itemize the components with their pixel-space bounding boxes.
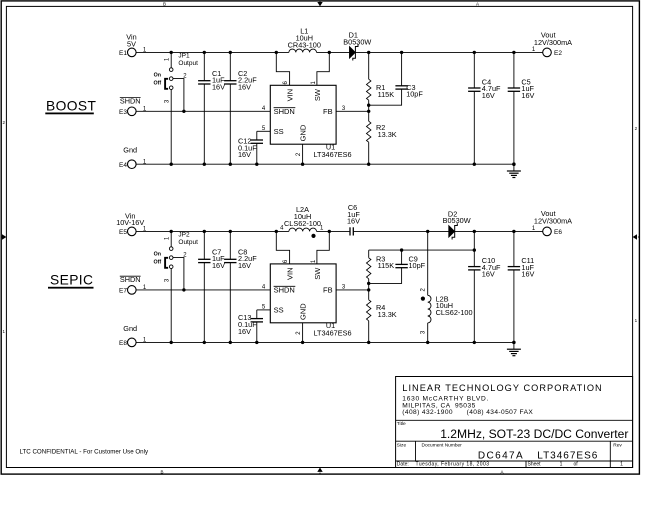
svg-text:CR43-100: CR43-100 <box>288 40 321 49</box>
svg-text:A: A <box>500 469 503 474</box>
resistor R1 <box>367 52 395 111</box>
IC U1 LT3467ES6 (sepic) <box>262 259 352 337</box>
wire SW to C6 <box>317 230 351 232</box>
svg-text:Off: Off <box>154 81 162 87</box>
diode D2 <box>443 209 471 239</box>
junction ground rail at C5 <box>512 163 515 166</box>
junction JP2 ground <box>170 341 173 344</box>
diode D1 <box>343 31 371 61</box>
wire JP1 pin 3 to ground <box>170 90 172 165</box>
junction C1 bottom <box>203 163 206 166</box>
capacitor C13 <box>238 310 263 343</box>
title block rev column divider <box>609 441 611 467</box>
junction C5 top <box>512 51 515 54</box>
junction JP1-SHDN <box>182 110 185 113</box>
wire ground rail <box>136 163 514 165</box>
svg-text:FB: FB <box>323 286 333 295</box>
svg-text:16V: 16V <box>521 91 534 100</box>
junction C5 bottom <box>512 163 515 166</box>
capacitor C8 <box>224 231 257 342</box>
terminal E5 <box>116 211 147 236</box>
capacitor C1 <box>198 52 225 164</box>
svg-text:DC647A: DC647A <box>478 451 524 462</box>
title block divider 2 <box>396 440 633 442</box>
svg-text:E5: E5 <box>119 229 127 236</box>
svg-text:1: 1 <box>620 462 623 468</box>
junction C12 ground <box>255 163 258 166</box>
junction GND pin <box>301 163 304 166</box>
svg-text:SS: SS <box>274 306 284 315</box>
svg-text:Rev: Rev <box>613 442 622 448</box>
svg-text:FB: FB <box>323 107 333 116</box>
svg-text:16V: 16V <box>482 91 495 100</box>
junction L2A left <box>275 230 278 233</box>
svg-text:Gnd: Gnd <box>123 324 137 333</box>
svg-text:16V: 16V <box>212 82 225 91</box>
svg-text:12V/300mA: 12V/300mA <box>534 216 572 225</box>
inductor L2A <box>280 205 324 238</box>
svg-text:Date:: Date: <box>397 462 409 468</box>
terminal E7 (SHDN) <box>119 275 147 295</box>
svg-text:GND: GND <box>298 124 307 141</box>
junction C2 top <box>229 51 232 54</box>
junction JP2 rail tap <box>170 230 173 233</box>
ground sepic <box>507 342 521 355</box>
junction D1 cathode node <box>367 51 370 54</box>
svg-text:SHDN: SHDN <box>274 286 295 295</box>
svg-text:VIN: VIN <box>285 267 294 280</box>
junction L2A right <box>328 230 331 233</box>
capacitor C9 <box>369 250 426 283</box>
junction GND pin sepic <box>301 341 304 344</box>
wire SS net <box>257 130 271 132</box>
resistor R4 <box>367 290 397 343</box>
junction C8 top <box>229 230 232 233</box>
junction C7 bottom <box>203 341 206 344</box>
inductor L2B <box>420 231 472 342</box>
svg-text:B0530W: B0530W <box>443 216 471 225</box>
junction JP2-SHDN <box>182 288 185 291</box>
svg-text:E7: E7 <box>119 288 127 295</box>
title block size column divider <box>415 441 417 461</box>
svg-text:Gnd: Gnd <box>123 145 137 154</box>
junction R2 ground <box>367 163 370 166</box>
zone divider top <box>317 1 322 7</box>
junction C2 bottom <box>229 163 232 166</box>
svg-text:VIN: VIN <box>285 89 294 102</box>
wire Vin rail <box>136 51 289 53</box>
wire FB <box>336 110 369 112</box>
svg-text:10pF: 10pF <box>409 261 426 270</box>
junction R3-C9 <box>367 282 370 285</box>
svg-text:16V: 16V <box>521 270 534 279</box>
svg-text:115K: 115K <box>378 90 395 99</box>
wire GND pin sepic <box>302 323 304 343</box>
capacitor C12 <box>238 131 263 164</box>
junction L1 right <box>328 51 331 54</box>
svg-text:Output: Output <box>178 239 198 246</box>
junction FB top at C9 <box>400 248 403 251</box>
wire C6 to D2 <box>353 230 448 232</box>
svg-text:E2: E2 <box>554 50 562 57</box>
svg-text:16V: 16V <box>238 327 251 336</box>
svg-text:Title: Title <box>397 421 406 427</box>
resistor R3 <box>367 250 395 290</box>
svg-text:10V-16V: 10V-16V <box>116 218 144 227</box>
svg-text:B: B <box>160 469 163 474</box>
junction JP1 rail tap <box>170 51 173 54</box>
junction FB node <box>367 110 370 113</box>
svg-text:A: A <box>476 1 479 6</box>
ground <box>507 164 521 177</box>
resistor R2 <box>367 111 397 164</box>
svg-text:of: of <box>574 462 579 468</box>
junction L1 left <box>275 51 278 54</box>
junction JP1 ground <box>170 163 173 166</box>
svg-text:SEPIC: SEPIC <box>50 273 93 288</box>
wire JP2 pin 2 to SHDN net <box>173 258 184 290</box>
title block sheet column divider <box>525 461 527 468</box>
svg-text:LT3467ES6: LT3467ES6 <box>314 150 352 159</box>
wire VIN feed <box>276 52 289 85</box>
svg-text:E4: E4 <box>119 162 127 169</box>
svg-text:Off: Off <box>154 260 162 266</box>
svg-text:E6: E6 <box>554 229 562 236</box>
svg-text:115K: 115K <box>378 261 395 270</box>
capacitor C5 <box>508 52 535 164</box>
wire JP2 pin 3 to ground <box>170 269 172 343</box>
terminal E2 <box>532 31 572 58</box>
svg-text:SHDN: SHDN <box>274 107 295 116</box>
capacitor C11 <box>508 231 535 342</box>
junction C4 bottom <box>473 163 476 166</box>
svg-text:Tuesday, February 18, 2003: Tuesday, February 18, 2003 <box>416 462 490 468</box>
junction L2B top <box>426 230 429 233</box>
svg-text:LTC CONFIDENTIAL - For Custome: LTC CONFIDENTIAL - For Customer Use Only <box>20 449 149 456</box>
svg-text:Sheet: Sheet <box>528 462 542 468</box>
svg-text:Document Number: Document Number <box>422 442 463 448</box>
svg-text:(408) 434-0507 FAX: (408) 434-0507 FAX <box>467 409 534 416</box>
svg-text:Output: Output <box>178 60 198 67</box>
svg-text:LINEAR TECHNOLOGY CORPORATION: LINEAR TECHNOLOGY CORPORATION <box>402 383 602 393</box>
section label BOOST <box>45 98 96 114</box>
svg-text:JP1: JP1 <box>178 53 190 60</box>
junction C11 top <box>512 230 515 233</box>
svg-text:13.3K: 13.3K <box>378 130 397 139</box>
svg-text:B: B <box>163 1 166 6</box>
wire SS net sepic <box>257 309 271 311</box>
junction ground rail sepic at C11 <box>512 341 515 344</box>
junction C7 top <box>203 230 206 233</box>
title block box <box>396 377 633 468</box>
svg-text:16V: 16V <box>238 150 251 159</box>
capacitor C2 <box>224 52 257 164</box>
junction C10 top <box>473 230 476 233</box>
wire Vin rail sepic <box>136 230 289 232</box>
svg-text:1.2MHz, SOT-23 DC/DC Converter: 1.2MHz, SOT-23 DC/DC Converter <box>440 427 628 441</box>
wire SW to diode <box>317 51 350 53</box>
svg-text:16V: 16V <box>238 82 251 91</box>
jumper JP2 <box>154 231 199 282</box>
inductor L1 <box>288 27 321 53</box>
svg-text:1: 1 <box>560 462 563 468</box>
svg-text:On: On <box>154 72 161 78</box>
svg-text:GND: GND <box>298 303 307 320</box>
wire JP1 pin 2 to SHDN net <box>173 79 184 112</box>
wire SHDN net sepic <box>136 289 270 291</box>
wire GND pin <box>302 144 304 164</box>
wire SW feed <box>317 52 329 85</box>
svg-text:LT3467ES6: LT3467ES6 <box>314 329 352 338</box>
wire SHDN net <box>136 110 270 112</box>
junction L2B ground <box>426 341 429 344</box>
zone divider left <box>1 234 6 239</box>
wire feedback top <box>369 249 475 251</box>
phone line <box>402 409 533 416</box>
junction R4 ground <box>367 341 370 344</box>
junction C3 top <box>400 51 403 54</box>
svg-text:CLS62-100: CLS62-100 <box>436 308 473 317</box>
svg-text:E3: E3 <box>119 109 127 116</box>
svg-text:SS: SS <box>274 127 284 136</box>
svg-text:JP2: JP2 <box>178 232 190 239</box>
svg-text:12V/300mA: 12V/300mA <box>534 38 572 47</box>
wire VIN feed sepic <box>276 231 289 264</box>
svg-text:Size: Size <box>397 442 407 448</box>
svg-text:5V: 5V <box>127 39 136 48</box>
svg-text:10pF: 10pF <box>406 90 423 99</box>
svg-text:CLS62-100: CLS62-100 <box>284 219 321 228</box>
wire SW feed sepic <box>317 231 329 264</box>
terminal E6 <box>532 209 572 236</box>
junction C1 top <box>203 51 206 54</box>
section label SEPIC <box>48 273 94 289</box>
svg-text:E8: E8 <box>119 340 127 347</box>
jumper JP1 <box>154 52 199 103</box>
junction FB node sepic <box>367 288 370 291</box>
terminal E1 <box>119 33 147 57</box>
zone divider bottom <box>317 468 322 475</box>
svg-text:BOOST: BOOST <box>46 98 96 113</box>
wire ground rail sepic <box>136 341 514 343</box>
title block divider 1 <box>396 419 633 421</box>
capacitor C6 (series) <box>347 203 360 235</box>
svg-text:13.3K: 13.3K <box>378 310 397 319</box>
junction FB top at C10 <box>473 248 476 251</box>
junction C4 top <box>473 51 476 54</box>
svg-text:16V: 16V <box>212 261 225 270</box>
svg-text:On: On <box>154 251 161 257</box>
wire FB sepic <box>336 289 369 291</box>
capacitor C4 <box>468 52 501 164</box>
svg-text:B0530W: B0530W <box>343 37 371 46</box>
junction C13 ground <box>255 341 258 344</box>
svg-text:16V: 16V <box>238 261 251 270</box>
wire Vout rail sepic <box>455 230 543 232</box>
terminal E3 (SHDN) <box>119 96 147 116</box>
svg-text:(408) 432-1900: (408) 432-1900 <box>402 409 453 416</box>
capacitor C10 <box>468 231 501 342</box>
capacitor C7 <box>198 231 225 342</box>
svg-text:SW: SW <box>313 267 322 280</box>
junction R1-C3 <box>367 104 370 107</box>
svg-text:16V: 16V <box>482 270 495 279</box>
zone divider right <box>633 234 640 239</box>
svg-text:LT3467ES6: LT3467ES6 <box>537 451 598 462</box>
svg-text:16V: 16V <box>347 217 360 226</box>
terminal E8 (Gnd) <box>119 324 147 347</box>
junction C11 bottom <box>512 341 515 344</box>
svg-text:E1: E1 <box>119 50 127 57</box>
junction C10 bottom <box>473 341 476 344</box>
title block divider 3 <box>396 460 633 462</box>
IC U1 LT3467ES6 (boost) <box>262 80 352 158</box>
terminal E4 (Gnd) <box>119 145 147 168</box>
svg-text:SW: SW <box>313 88 322 101</box>
wire Vout rail <box>355 51 542 53</box>
junction C8 bottom <box>229 341 232 344</box>
capacitor C3 <box>369 52 424 105</box>
